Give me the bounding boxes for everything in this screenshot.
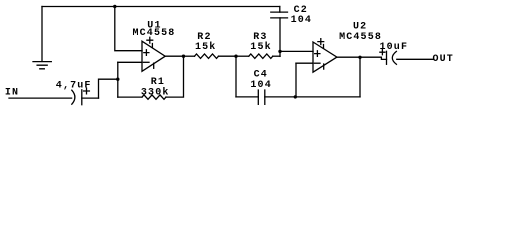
- wire C4 to feedback vertical: [265, 96, 360, 98]
- wire cap output: [82, 97, 99, 99]
- wire to output cap with step: [360, 57, 387, 59]
- op-amp U1: [142, 41, 165, 71]
- wire ground drop: [41, 7, 43, 62]
- capacitor C output plus polarity: [380, 50, 385, 55]
- op-amp U1 minus input mark: [143, 61, 149, 63]
- wire U2 minus input: [296, 62, 313, 64]
- svg-text:MC4558: MC4558: [133, 28, 176, 39]
- wire node to R3: [236, 55, 249, 57]
- wire U1 plus input branch: [115, 7, 142, 51]
- svg-text:OUT: OUT: [433, 54, 454, 65]
- op-amp U2 Vplus stub: [318, 39, 324, 49]
- wire C2 drop: [279, 18, 281, 57]
- wire inverting node vertical: [117, 62, 119, 97]
- node rail to U1 plus branch: [113, 5, 116, 8]
- wire U1 minus input: [118, 61, 142, 63]
- wire rail to C2: [279, 7, 281, 13]
- wire U1 output: [165, 55, 183, 57]
- svg-text:10uF: 10uF: [380, 42, 409, 53]
- ground: [33, 62, 51, 69]
- capacitor C input 4.7uF straight plate: [81, 90, 83, 105]
- svg-text:15k: 15k: [195, 41, 216, 53]
- wire U2 plus input: [280, 50, 313, 52]
- resistor R2 15k: [195, 54, 219, 58]
- wire feedback vertical: [359, 57, 361, 97]
- wire top supply rail: [42, 6, 280, 8]
- node R3 C2 U2 plus junction: [278, 50, 281, 53]
- svg-text:IN: IN: [5, 87, 19, 98]
- capacitor C2 104 plates: [271, 12, 288, 18]
- op-amp U2 Vminus stub: [323, 64, 325, 69]
- resistor R1 330k: [142, 95, 166, 99]
- wire R1 to output node: [166, 56, 184, 97]
- wire C4 branch vertical: [235, 56, 237, 97]
- op-amp U2: [313, 42, 337, 72]
- capacitor C output 10uF curved plate: [392, 51, 396, 64]
- wire IN: [9, 97, 72, 99]
- capacitor C output 10uF straight plate: [386, 51, 388, 64]
- node U1 output: [182, 55, 185, 58]
- wire OUT: [397, 58, 433, 60]
- node U2 output: [358, 56, 361, 59]
- op-amp U1 plus input mark: [144, 50, 149, 56]
- wire U2 minus to feedback rail: [295, 63, 297, 97]
- wire node to C4: [236, 96, 258, 98]
- op-amp U1 Vplus stub: [147, 37, 153, 47]
- svg-text:330k: 330k: [141, 86, 170, 98]
- capacitor C input 4.7uF curved plate: [72, 90, 75, 104]
- wire cap to inverting node: [99, 79, 118, 98]
- svg-text:104: 104: [291, 15, 312, 26]
- wire R3 to C2 vertical: [273, 55, 280, 57]
- svg-text:15k: 15k: [250, 41, 271, 53]
- op-amp U1 Vminus stub: [153, 63, 155, 68]
- wire U2 output: [337, 56, 360, 58]
- wire R2 to node: [219, 55, 237, 57]
- svg-text:104: 104: [250, 80, 271, 91]
- op-amp U2 minus input mark: [314, 62, 320, 64]
- capacitor C input plus polarity: [84, 88, 90, 94]
- resistor R3 15k: [249, 54, 273, 58]
- capacitor C4 104 plates: [258, 90, 265, 104]
- node R2 R3 C4 junction: [234, 55, 237, 58]
- svg-text:4,7uF: 4,7uF: [56, 81, 92, 92]
- wire bottom rail left: [118, 96, 142, 98]
- wire to R2: [184, 55, 195, 57]
- node C4 feedback junction: [294, 95, 297, 98]
- svg-text:MC4558: MC4558: [339, 32, 382, 43]
- node inverting input junction: [116, 78, 119, 81]
- op-amp U2 plus input mark: [315, 51, 320, 57]
